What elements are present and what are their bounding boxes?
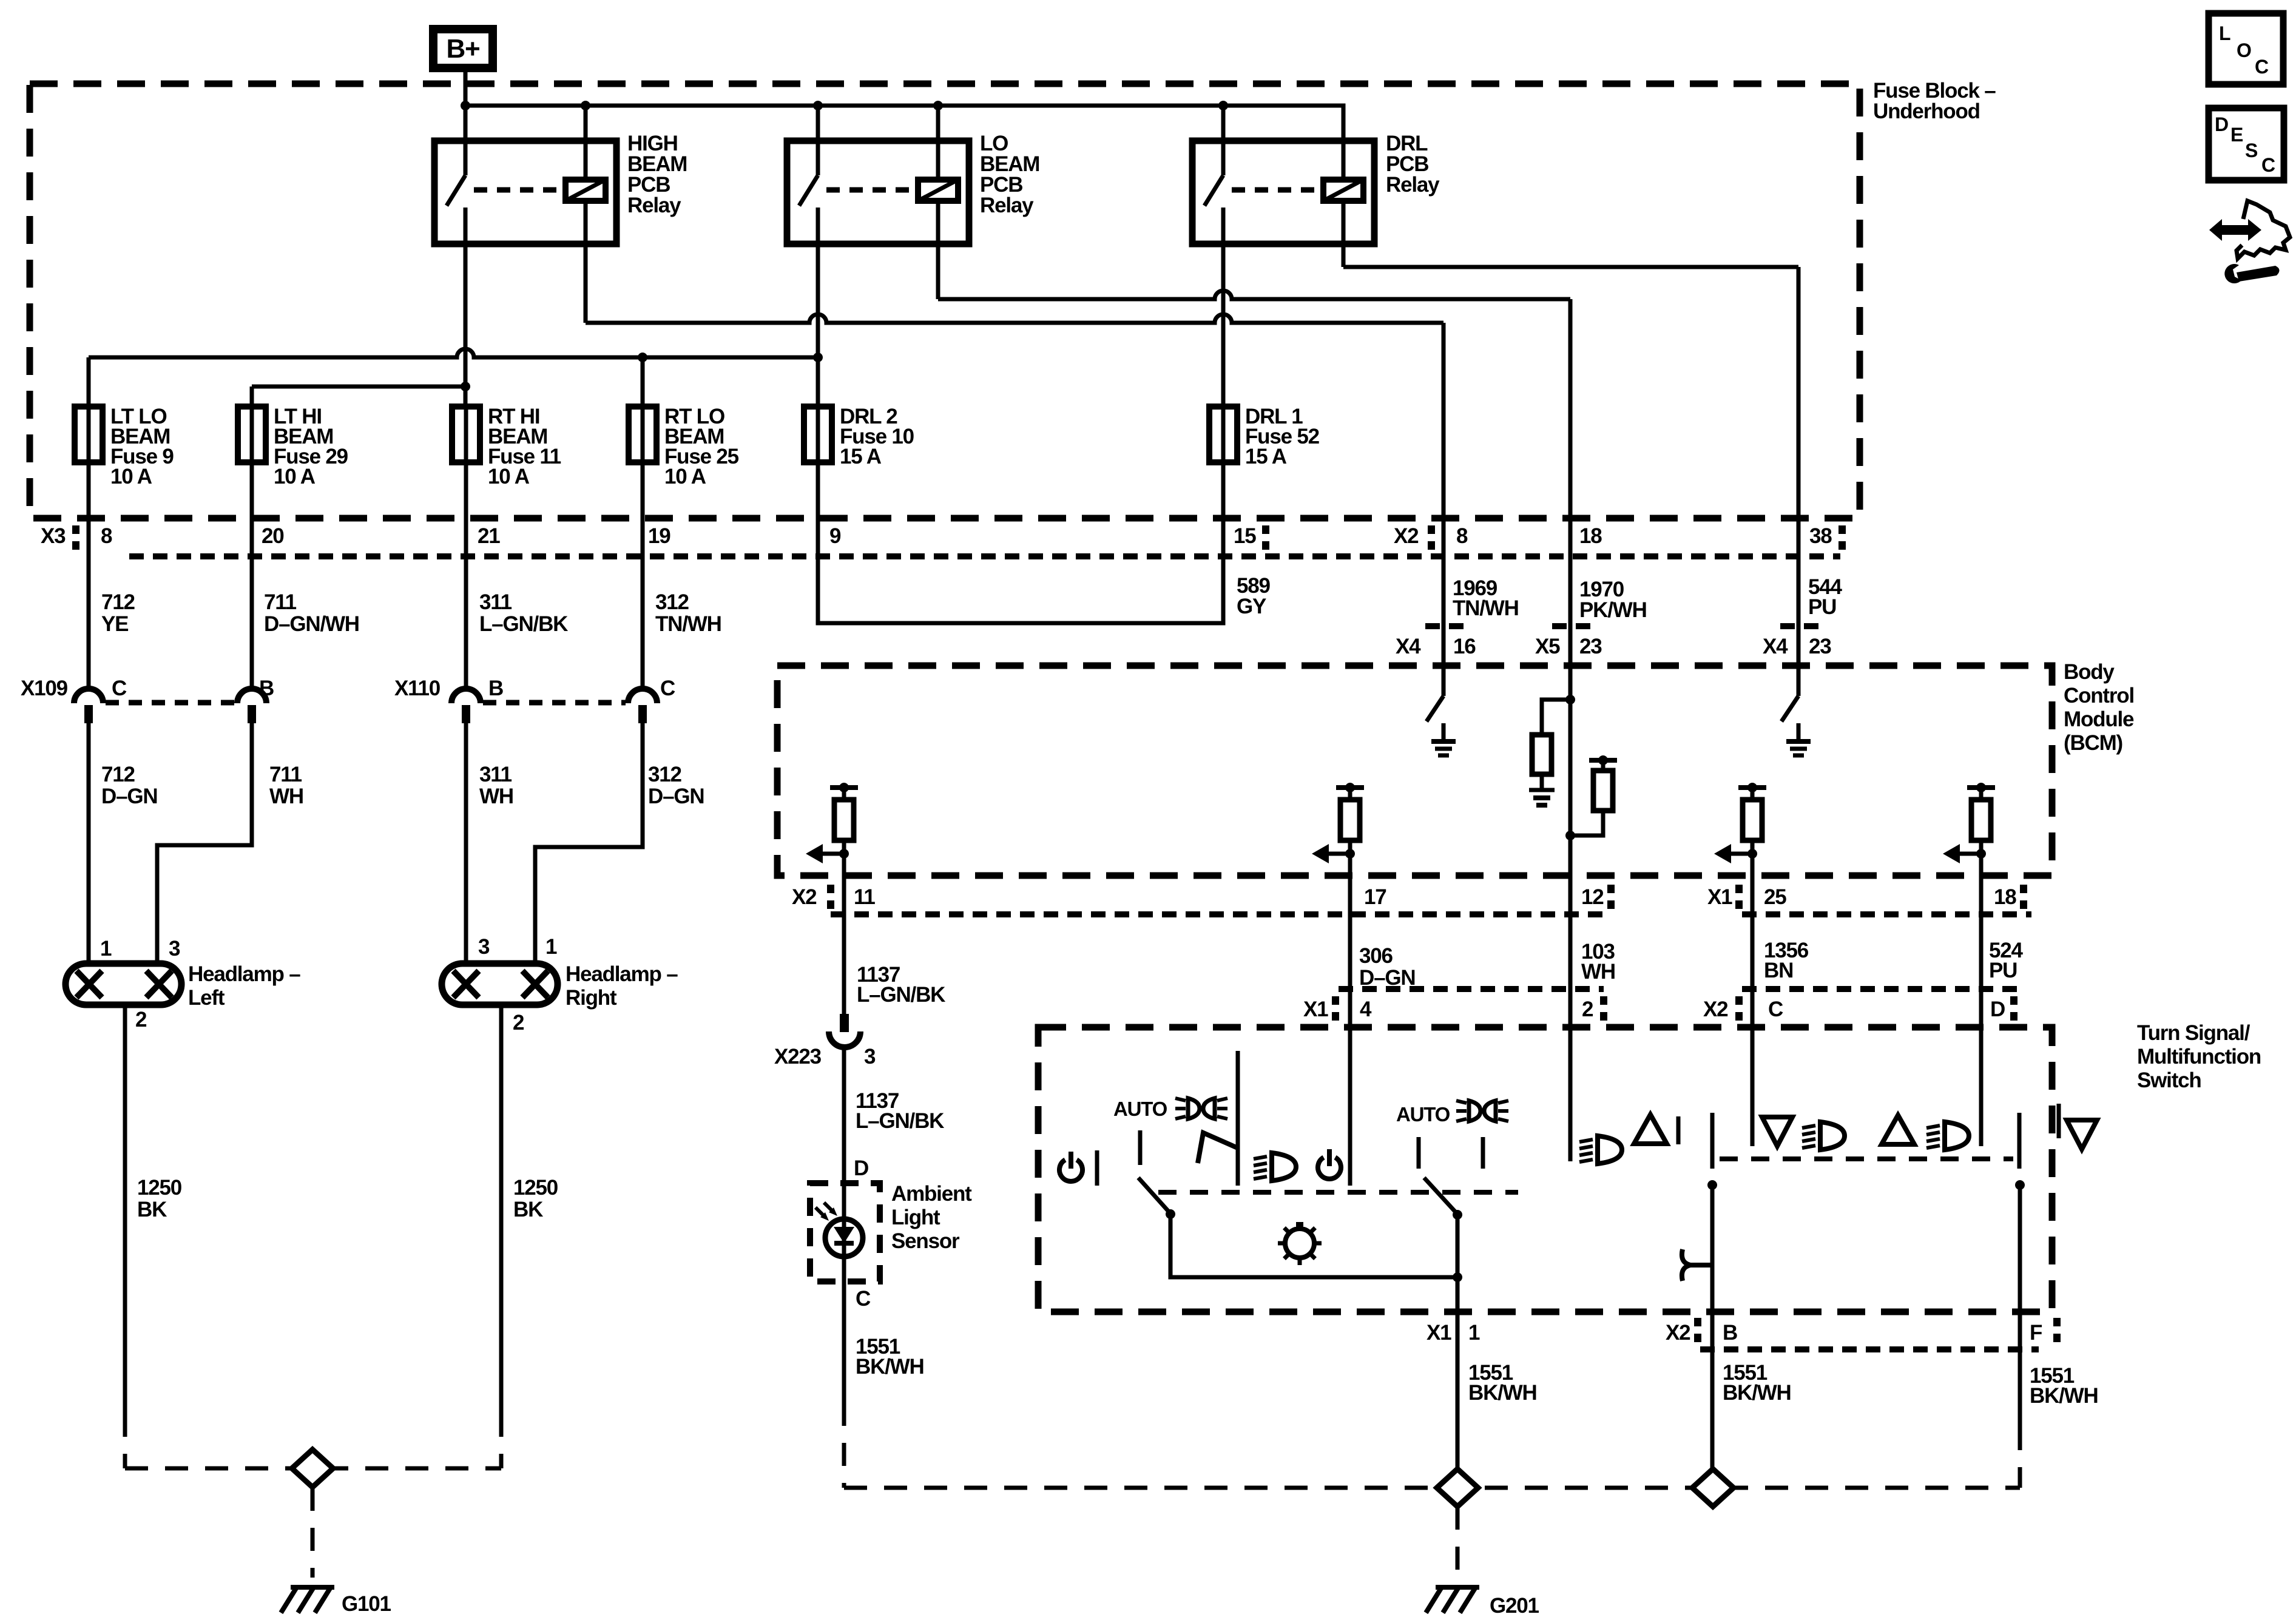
svg-text:X5: X5 [1535, 635, 1560, 658]
svg-text:X1: X1 [1707, 885, 1732, 909]
svg-text:D: D [1990, 998, 2005, 1021]
svg-text:L–GN/BK: L–GN/BK [856, 1109, 944, 1133]
DRL PCB relay coil [1323, 180, 1363, 201]
svg-text:B: B [488, 677, 503, 700]
BCM pull-down branch to ground [1542, 700, 1570, 735]
HIGH BEAM PCB relay coil [566, 180, 606, 201]
fuse DRL 1 Fuse 52 [1209, 407, 1237, 462]
svg-text:X1: X1 [1303, 998, 1328, 1021]
svg-text:19: 19 [648, 524, 670, 548]
BCM output driver pin 18 [1967, 785, 1995, 790]
svg-text:Switch: Switch [2137, 1068, 2201, 1092]
relay box DRL PCB [1192, 141, 1374, 244]
svg-text:Module: Module [2064, 707, 2134, 731]
svg-text:Right: Right [566, 986, 617, 1010]
svg-text:10 A: 10 A [488, 465, 530, 488]
svg-text:3: 3 [864, 1045, 876, 1068]
fuse RT LO BEAM [629, 407, 657, 462]
wire LT LO fuse to X3-8 [87, 407, 91, 462]
wire LO relay coil return to pin 18 [936, 201, 940, 299]
ambient light sensor dashed box [810, 1183, 880, 1281]
svg-text:X1: X1 [1427, 1321, 1451, 1345]
wire 1250 BK right headlamp ground [499, 1005, 504, 1414]
wire 712 D-GN to headlamp left pin 1 [87, 723, 91, 964]
svg-text:15 A: 15 A [840, 445, 882, 468]
svg-text:C: C [1768, 998, 1783, 1021]
svg-text:WH: WH [269, 785, 303, 808]
svg-text:4: 4 [1360, 998, 1372, 1021]
svg-text:AUTO: AUTO [1113, 1098, 1167, 1120]
svg-text:712: 712 [101, 763, 135, 786]
headlamp switch blade F [2017, 1113, 2022, 1169]
splice diamond G201 net [1437, 1469, 1478, 1507]
svg-text:1250: 1250 [513, 1176, 558, 1200]
LO BEAM PCB relay switch blade [799, 175, 818, 206]
switch mechanical link left [1158, 1190, 1518, 1195]
inline connector X109 terminal C [74, 689, 103, 703]
DRL PCB relay switch output stub [1221, 208, 1226, 244]
HIGH BEAM PCB relay switch output stub [464, 208, 468, 244]
svg-text:G101: G101 [342, 1592, 391, 1616]
svg-text:C: C [660, 677, 675, 700]
wire 1356 BN BCM pin 25 to switch X2-C [1751, 854, 1755, 1146]
HIGH BEAM PCB relay actuation dashed link [474, 187, 565, 193]
svg-text:17: 17 [1364, 885, 1386, 909]
DRL PCB relay actuation dashed link [1232, 187, 1323, 193]
svg-text:712: 712 [101, 590, 135, 614]
B+ battery positive terminal [433, 29, 493, 68]
switch mechanical link right [1720, 1156, 2013, 1161]
fuse RT HI BEAM [452, 407, 480, 462]
svg-text:15: 15 [1234, 524, 1256, 548]
park lamps contact bar [2057, 1104, 2061, 1138]
svg-text:Relay: Relay [980, 194, 1034, 217]
svg-text:PK/WH: PK/WH [1579, 598, 1647, 622]
svg-text:Ambient: Ambient [891, 1182, 972, 1206]
svg-text:23: 23 [1809, 635, 1831, 658]
svg-text:Light: Light [891, 1206, 940, 1229]
svg-text:3: 3 [478, 935, 490, 959]
switch common wire [1170, 1214, 1457, 1277]
DRL PCB relay coil feed [1342, 106, 1346, 180]
svg-text:BK/WH: BK/WH [1723, 1381, 1791, 1405]
connector X109 dashed link [106, 700, 235, 706]
svg-text:8: 8 [1456, 524, 1468, 548]
inline connector X109 terminal B [237, 689, 266, 703]
svg-text:G201: G201 [1490, 1594, 1539, 1617]
svg-text:C: C [2255, 56, 2269, 78]
svg-text:Control: Control [2064, 684, 2134, 707]
on position contact 2 [1481, 1137, 1485, 1169]
svg-text:L–GN/BK: L–GN/BK [857, 983, 945, 1007]
svg-text:20: 20 [262, 524, 284, 548]
BCM headlamp switch signal input X4-16 switch to ground [1442, 666, 1446, 696]
svg-text:16: 16 [1453, 635, 1476, 658]
power off icon 2 [1318, 1158, 1341, 1179]
service information icon [2209, 219, 2261, 241]
svg-text:25: 25 [1764, 885, 1786, 909]
switch output F wire [2018, 1185, 2022, 1427]
wire LO output branch to LT LO and RT LO fuses [89, 349, 818, 357]
BCM output driver pin 11 [830, 785, 858, 790]
splice diamond G201 net right [1692, 1469, 1734, 1507]
wire LO relay output down to DRL 2 fuse [816, 208, 820, 407]
panel illumination bulb icon [1285, 1229, 1314, 1258]
svg-text:BK: BK [137, 1198, 167, 1221]
BCM X4-23 connector short dashes [1780, 623, 1826, 629]
wire 1969 TN/WH X2-8 to BCM X4-16 [1442, 323, 1446, 696]
svg-text:2: 2 [513, 1011, 524, 1035]
svg-text:2: 2 [1582, 998, 1593, 1021]
svg-text:TN/WH: TN/WH [655, 612, 721, 636]
DESC reference box [2209, 108, 2284, 180]
B+ feed bus wire [465, 106, 1343, 180]
svg-text:S: S [2245, 140, 2258, 161]
bus junction node [1218, 101, 1228, 110]
bus junction node [933, 101, 943, 110]
svg-text:X2: X2 [1394, 524, 1419, 548]
high beam contact bar [1236, 1051, 1240, 1186]
svg-text:Body: Body [2064, 660, 2115, 684]
wire RT HI fuse to X3-21 [464, 407, 468, 462]
wire 311 WH to headlamp right pin 3 [464, 723, 468, 964]
switch output B wire [1710, 1185, 1715, 1470]
svg-text:311: 311 [479, 763, 512, 786]
wire HIGH relay output down to RT HI fuse [464, 208, 468, 407]
wire 312 D-GN jog to headlamp right pin 1 [535, 723, 643, 964]
LOC reference box [2209, 13, 2283, 84]
auto position contact 2 [1417, 1137, 1421, 1169]
headlamp switch blade 2 [1424, 1178, 1457, 1214]
bus junction node [461, 101, 470, 110]
DRL PCB relay switch feed [1221, 106, 1226, 175]
ground G101 [291, 1585, 334, 1590]
svg-text:15 A: 15 A [1245, 445, 1287, 468]
svg-text:9: 9 [829, 524, 841, 548]
svg-text:BK: BK [513, 1198, 543, 1221]
589 GY jumper wire pin 9 to pin 15 [818, 462, 1223, 623]
HIGH BEAM PCB relay coil feed [584, 106, 588, 180]
svg-text:18: 18 [1994, 885, 2016, 909]
headlamp switch blade B [1710, 1113, 1715, 1169]
svg-text:X110: X110 [394, 677, 441, 700]
ground G201 [1436, 1585, 1479, 1590]
svg-text:Turn Signal/: Turn Signal/ [2137, 1021, 2250, 1045]
svg-text:Left: Left [188, 986, 225, 1010]
svg-text:21: 21 [478, 524, 500, 548]
bus junction node [581, 101, 590, 110]
LO BEAM PCB relay switch feed [816, 106, 820, 175]
svg-text:Relay: Relay [627, 194, 681, 217]
svg-text:1250: 1250 [137, 1176, 182, 1200]
dashed stub to G101 [311, 1488, 315, 1578]
relay box LO BEAM PCB [787, 141, 969, 244]
svg-text:C: C [2261, 154, 2275, 176]
wire HIGH relay output junction [461, 382, 470, 391]
svg-text:311: 311 [479, 590, 512, 614]
turn signal up triangle with low beam icon [1882, 1115, 1914, 1144]
power off icon [1059, 1160, 1082, 1181]
svg-text:B: B [259, 677, 274, 700]
svg-text:X3: X3 [41, 524, 66, 548]
svg-text:11: 11 [854, 885, 875, 909]
svg-text:1: 1 [545, 935, 557, 959]
svg-text:(BCM): (BCM) [2064, 731, 2122, 755]
svg-text:O: O [2237, 39, 2251, 61]
svg-text:X2: X2 [1703, 998, 1728, 1021]
svg-text:D: D [2215, 113, 2228, 135]
inline connector X223 pin 3 [840, 1014, 849, 1032]
wire DRL 2 fuse to X3-9 [816, 407, 820, 462]
inline connector X110 terminal B [451, 689, 481, 703]
wire DRL 1 fuse to X3-15 [1221, 407, 1226, 462]
svg-text:PU: PU [1989, 959, 2017, 982]
wire 711 WH jog to headlamp left pin 3 [157, 723, 252, 964]
svg-text:D: D [854, 1156, 868, 1180]
svg-text:X4: X4 [1763, 635, 1788, 658]
svg-text:X4: X4 [1396, 635, 1421, 658]
wire 1137 L-GN/BK BCM pin 11 to X223 [842, 854, 846, 1014]
svg-text:12: 12 [1581, 885, 1604, 909]
LO BEAM PCB relay switch output stub [816, 208, 820, 244]
relay box HIGH BEAM PCB [434, 141, 616, 244]
svg-text:Headlamp –: Headlamp – [188, 962, 300, 986]
HIGH BEAM PCB relay switch blade [447, 175, 465, 206]
ambient light sensor photodiode [825, 1219, 863, 1257]
Fuse Block - Underhood dashed enclosure [30, 84, 1860, 518]
svg-text:L–GN/BK: L–GN/BK [479, 612, 568, 636]
BCM pull-up branch internal source [1570, 811, 1603, 836]
svg-text:711: 711 [269, 763, 302, 786]
svg-text:Relay: Relay [1386, 173, 1440, 197]
svg-text:C: C [856, 1287, 871, 1311]
wire 544 PU pin 38 to BCM X4-23 [1797, 267, 1801, 696]
junction RT LO fuse tap [638, 353, 647, 362]
switch output to X1-1 [1456, 1215, 1460, 1470]
G201 ground bus dashed wire [844, 1486, 2020, 1490]
svg-text:10 A: 10 A [110, 465, 152, 488]
low beam icon right section [1598, 1136, 1622, 1164]
svg-text:F: F [2030, 1321, 2042, 1345]
BCM X4-16 connector short dashes [1425, 623, 1471, 629]
fuse LT HI BEAM [238, 407, 266, 462]
svg-text:BK/WH: BK/WH [2030, 1384, 2098, 1408]
svg-text:23: 23 [1579, 635, 1602, 658]
svg-text:GY: GY [1237, 595, 1266, 618]
svg-text:BK/WH: BK/WH [1468, 1381, 1537, 1405]
svg-text:Underhood: Underhood [1873, 100, 1980, 123]
dashed stub to G201 [1456, 1507, 1460, 1576]
turn signal triangle up icon [1634, 1115, 1667, 1144]
fuse DRL 2 Fuse 10 [804, 407, 832, 462]
svg-text:B: B [1723, 1321, 1737, 1345]
svg-text:1: 1 [100, 937, 112, 960]
turn signal top connector short dashes [1339, 986, 1604, 992]
svg-text:D–GN: D–GN [648, 785, 704, 808]
headlamps on icon [1188, 1098, 1200, 1119]
svg-text:L: L [2219, 22, 2230, 44]
svg-text:Headlamp –: Headlamp – [566, 962, 678, 986]
LO BEAM PCB relay actuation dashed link [826, 187, 917, 193]
wire LO relay output junction [813, 353, 823, 362]
wire 1551 BK/WH sensor ground dashed [842, 1403, 846, 1488]
svg-text:10 A: 10 A [664, 465, 706, 488]
svg-text:38: 38 [1809, 524, 1832, 548]
svg-text:BK/WH: BK/WH [856, 1355, 924, 1379]
wire 1137 L-GN/BK X223 to ambient light sensor [842, 1047, 846, 1403]
wire LT HI fuse to X3-20 [250, 407, 254, 462]
turn signal bottom connector short dashes [1700, 1346, 2039, 1352]
wire HIGH relay coil return to X2-8 [584, 201, 588, 323]
svg-text:711: 711 [264, 590, 297, 614]
wire 524 PU BCM pin 18 to switch pin D [1979, 854, 1984, 1146]
inline connector X110 terminal C [628, 689, 657, 703]
HIGH BEAM PCB relay switch feed [464, 106, 468, 175]
wire DRL relay output down to DRL 1 fuse [1221, 208, 1226, 407]
svg-text:AUTO: AUTO [1396, 1103, 1450, 1126]
off position contact [1095, 1150, 1099, 1186]
svg-text:18: 18 [1579, 524, 1602, 548]
Turn Signal / Multifunction Switch dashed enclosure [1038, 1027, 2052, 1312]
svg-text:312: 312 [648, 763, 682, 786]
svg-text:PU: PU [1808, 595, 1836, 619]
wire DRL relay coil return to pin 38 [1342, 201, 1346, 267]
svg-text:X109: X109 [21, 677, 68, 700]
headlamp right lamp symbol [442, 964, 558, 1005]
svg-text:2: 2 [135, 1008, 147, 1031]
svg-text:306: 306 [1359, 944, 1393, 968]
svg-text:X2: X2 [1666, 1321, 1690, 1345]
svg-text:BN: BN [1764, 959, 1793, 982]
fuse block X3 connector inner dashed line [129, 553, 1840, 559]
wire 306 D-GN BCM pin 17 to switch X1-4 [1348, 854, 1352, 1186]
fuse LT LO BEAM [75, 407, 103, 462]
wire HIGH output branch to LT HI fuse [252, 385, 465, 389]
svg-text:WH: WH [479, 785, 513, 808]
svg-text:D–GN: D–GN [101, 785, 157, 808]
BCM node on 1970 PK/WH wire lower [1565, 831, 1575, 840]
low beam icon [1272, 1153, 1296, 1181]
svg-text:10 A: 10 A [274, 465, 316, 488]
flash to pass lever icon [1198, 1133, 1239, 1163]
wire B+ to bus [464, 68, 468, 106]
Body Control Module dashed enclosure [777, 666, 2052, 876]
DRL PCB relay switch blade [1204, 175, 1223, 206]
BCM X5-23 connector short dashes [1552, 623, 1598, 629]
auto position contact [1138, 1130, 1143, 1165]
LO BEAM PCB relay coil feed [936, 106, 940, 180]
svg-text:C: C [112, 677, 127, 700]
svg-text:YE: YE [101, 612, 128, 636]
svg-text:8: 8 [101, 524, 112, 548]
svg-text:X223: X223 [774, 1045, 822, 1068]
svg-text:1: 1 [1468, 1321, 1480, 1345]
detent bracket on B wire [1682, 1249, 1712, 1281]
wire 1970 PK/WH pin 18 through BCM [1568, 299, 1573, 1161]
svg-text:WH: WH [1581, 960, 1615, 984]
LO BEAM PCB relay coil [918, 180, 958, 201]
turn signal down triangle with low beam icon [1762, 1117, 1792, 1146]
BCM bottom connector short dashes [831, 911, 1611, 917]
BCM output driver pin 17 [1336, 785, 1364, 790]
svg-text:B+: B+ [446, 34, 479, 64]
headlamp left lamp symbol [66, 964, 181, 1005]
svg-text:E: E [2230, 124, 2243, 146]
svg-text:TN/WH: TN/WH [1453, 596, 1519, 620]
svg-text:3: 3 [169, 937, 180, 960]
svg-text:X2: X2 [792, 885, 817, 909]
BCM DRL switch input X4-23 switch to ground [1797, 666, 1801, 696]
G101 ground bus dashed wire [125, 1467, 501, 1471]
connector X110 dashed link [483, 700, 626, 706]
wire 1250 BK left headlamp ground [123, 1005, 127, 1414]
park lamps down triangle [2067, 1120, 2097, 1149]
splice diamond G101 net [292, 1450, 333, 1487]
svg-text:Sensor: Sensor [891, 1229, 960, 1253]
BCM node on 1970 PK/WH wire [1565, 695, 1575, 704]
BCM output driver pin 25 [1738, 785, 1766, 790]
headlamp switch blade 1 [1138, 1178, 1170, 1214]
svg-text:D–GN/WH: D–GN/WH [264, 612, 359, 636]
svg-text:Multifunction: Multifunction [2137, 1045, 2261, 1068]
headlamps on icon 2 [1469, 1101, 1481, 1121]
wire RT LO fuse to X3-19 [641, 407, 645, 462]
svg-text:312: 312 [655, 590, 689, 614]
incident light arrows [815, 1207, 825, 1217]
bus junction node [813, 101, 823, 110]
